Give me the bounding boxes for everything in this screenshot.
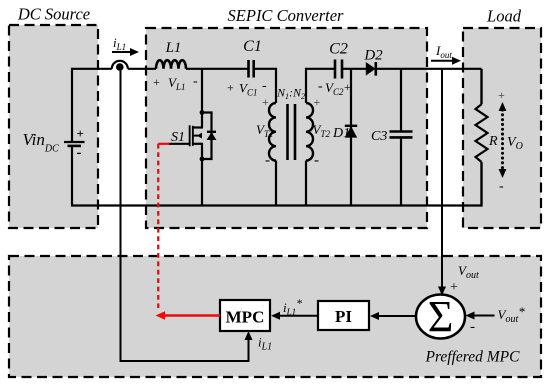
svg-text:-: - xyxy=(499,179,504,194)
wire: C1 to transformer primary top xyxy=(254,69,276,103)
svg-text:D2: D2 xyxy=(363,48,383,64)
inductor L1 xyxy=(156,60,186,69)
svg-text:D1: D1 xyxy=(332,126,350,141)
block PI xyxy=(318,301,369,330)
diode D1 branch wire xyxy=(350,69,352,206)
svg-text:+: + xyxy=(498,88,505,102)
svg-text:PI: PI xyxy=(335,307,352,326)
svg-text:-: - xyxy=(265,153,270,169)
junction dot drain xyxy=(200,110,205,115)
svg-text:C1: C1 xyxy=(243,38,262,55)
svg-text:-: - xyxy=(318,79,323,94)
svg-text:iL1: iL1 xyxy=(113,35,126,52)
wire: V_out sense vertical xyxy=(441,69,443,292)
svg-text:Iout: Iout xyxy=(435,43,452,60)
arrow: I_out xyxy=(431,57,461,65)
capacitor C3 xyxy=(390,132,413,138)
wire: D2 to load xyxy=(375,68,482,70)
transistor S1 (MOSFET) xyxy=(168,125,203,146)
svg-text:R: R xyxy=(488,134,498,149)
svg-text:+: + xyxy=(314,95,321,109)
battery plate short xyxy=(68,145,82,148)
svg-text:DC Source: DC Source xyxy=(17,5,90,24)
red dashed gate wire vertical xyxy=(157,144,159,308)
capacitor C2 xyxy=(335,60,342,79)
wire: top rail battery to L1 xyxy=(72,69,112,142)
dashed box: DC Source xyxy=(9,25,98,228)
svg-text:-: - xyxy=(314,153,319,169)
block MPC xyxy=(220,300,270,331)
resistor R zigzag xyxy=(476,104,488,162)
current sensor dot xyxy=(116,63,124,71)
junction dot source xyxy=(200,157,205,162)
dashed box: Load xyxy=(463,28,541,228)
svg-text:S1: S1 xyxy=(171,130,185,145)
wire: primary bottom to rail xyxy=(275,161,277,206)
body diode of S1 xyxy=(207,132,217,140)
wire: MOSFET branch upper xyxy=(201,69,203,128)
svg-text:Σ: Σ xyxy=(428,292,454,341)
load corner wires xyxy=(480,69,482,105)
transformer polarity marks xyxy=(262,95,321,169)
transformer core lines xyxy=(288,104,296,160)
capacitor C3 branch wire xyxy=(400,69,402,206)
transformer primary winding V_T1 xyxy=(269,103,276,161)
svg-text:L1: L1 xyxy=(165,40,182,56)
arrow: summer to PI xyxy=(370,312,416,320)
arrow into summer top xyxy=(438,287,446,296)
wire: secondary top to C2 xyxy=(306,69,335,103)
label: + V_C1 - xyxy=(227,79,267,98)
V_O dotted arrow xyxy=(499,102,507,178)
svg-text:-: - xyxy=(262,79,267,94)
wire: sensor to L1 xyxy=(128,68,156,70)
transformer secondary winding V_T2 xyxy=(306,103,313,161)
svg-text:MPC: MPC xyxy=(226,308,265,327)
diode D2 xyxy=(366,62,376,76)
label: - V_C2 + xyxy=(318,79,351,97)
arrow: V_out* into summer xyxy=(466,312,495,320)
wire: resistor bottom xyxy=(480,162,482,207)
arrow: i_L1 top xyxy=(112,48,139,56)
red arrow: MPC to gate xyxy=(156,311,221,320)
wire: secondary bottom to rail xyxy=(305,161,307,206)
svg-text:+: + xyxy=(153,75,160,89)
svg-text:C2: C2 xyxy=(329,41,348,58)
wire: i_L1 sense down and to MPC xyxy=(121,69,249,361)
label: + V_L1 - xyxy=(153,74,198,92)
dashed box: SEPIC Converter xyxy=(146,28,427,228)
red gate wire solid horizontal xyxy=(158,143,169,145)
wire: bottom rail xyxy=(71,204,482,206)
battery plate long xyxy=(64,141,85,143)
wire: L1 to C1 xyxy=(186,68,249,70)
svg-text:+: + xyxy=(227,81,234,95)
svg-text:N1:N2: N1:N2 xyxy=(276,86,305,102)
capacitor C1 xyxy=(249,60,254,78)
svg-text:Preffered MPC: Preffered MPC xyxy=(425,349,521,366)
svg-text:-: - xyxy=(193,74,198,89)
dashed box: controller (Preffered MPC) xyxy=(9,256,541,377)
svg-text:SEPIC Converter: SEPIC Converter xyxy=(228,6,345,25)
arrow into MPC bottom xyxy=(245,331,253,340)
svg-text:Load: Load xyxy=(486,7,522,26)
svg-text:+: + xyxy=(77,126,84,141)
wire: MOSFET branch lower xyxy=(201,144,203,206)
wire: battery bottom to rail xyxy=(71,146,73,206)
wire: C2 to D2 xyxy=(342,68,367,70)
summing junction xyxy=(416,292,465,341)
current sensor hump xyxy=(112,61,128,69)
arrow: PI to MPC xyxy=(271,312,318,320)
svg-text:C3: C3 xyxy=(371,129,387,144)
svg-text:-: - xyxy=(470,319,475,335)
svg-text:-: - xyxy=(77,145,82,161)
diode D1 xyxy=(345,126,357,138)
body diode branch wires xyxy=(202,113,212,160)
svg-text:+: + xyxy=(262,95,269,109)
